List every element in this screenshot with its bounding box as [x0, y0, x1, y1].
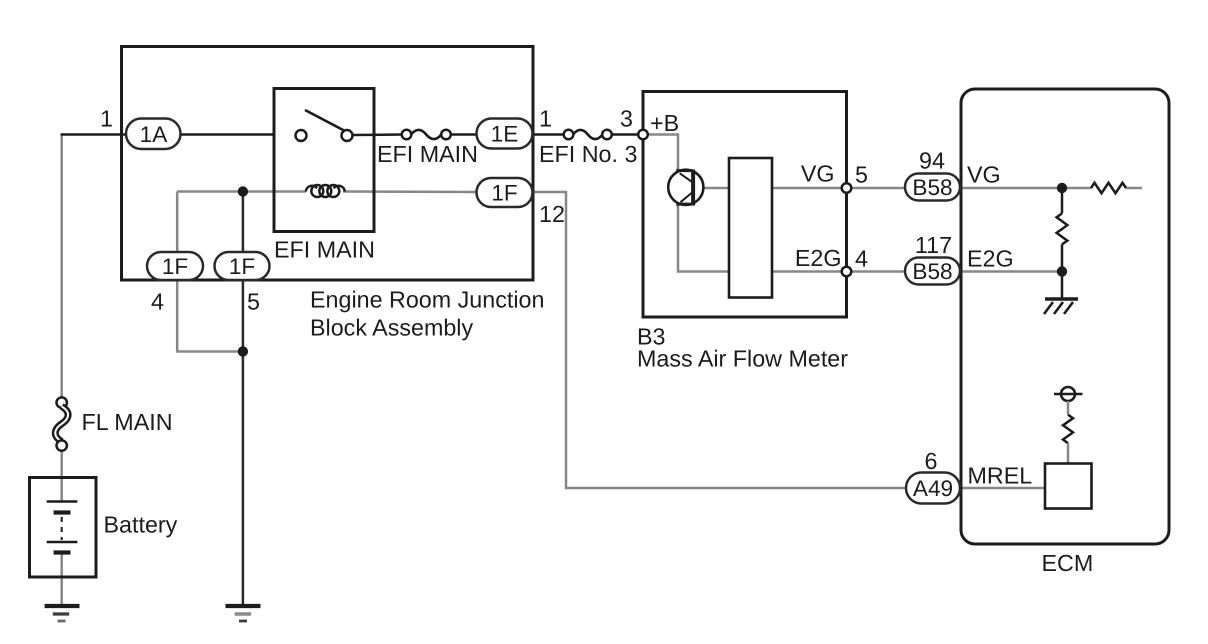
MAF box B3: [643, 92, 847, 318]
wire ground node vertical: [242, 192, 245, 605]
wire jog to ground node: [176, 350, 243, 353]
svg-text:3: 3: [620, 106, 633, 132]
pin E2G (4): [842, 267, 852, 277]
wire E2G to ECM: [847, 270, 1063, 273]
connector 1A: [126, 119, 181, 150]
wire fuse to +B: [611, 133, 643, 136]
wire VG sensor to pin: [772, 187, 847, 190]
connector 1F (4): [147, 252, 203, 280]
wire E2G node to chassis ground: [1061, 272, 1064, 300]
wire battery feed left vertical: [60, 135, 63, 399]
svg-text:117: 117: [915, 232, 952, 258]
fusible link FL MAIN: [57, 397, 67, 407]
wire 1F/12 to A49: [533, 192, 906, 488]
svg-text:A49: A49: [913, 476, 953, 501]
svg-text:1A: 1A: [140, 122, 169, 147]
svg-text:E2G: E2G: [795, 245, 842, 271]
wire VG to ECM: [847, 187, 1092, 190]
node coil junction: [238, 186, 248, 196]
svg-text:1: 1: [100, 106, 113, 132]
svg-text:Battery: Battery: [104, 512, 178, 538]
svg-text:MREL: MREL: [968, 463, 1033, 489]
svg-text:12: 12: [539, 201, 565, 227]
wire coil to 1F: [343, 190, 477, 193]
svg-text:EFI MAIN: EFI MAIN: [274, 237, 375, 263]
svg-text:6: 6: [925, 448, 938, 474]
resistor horizontal VG: [1091, 183, 1126, 193]
svg-text:VG: VG: [801, 161, 835, 187]
svg-text:ECM: ECM: [1042, 550, 1094, 576]
node E2G junction: [1057, 266, 1067, 276]
wire +B internal: [643, 135, 729, 272]
svg-text:E2G: E2G: [967, 246, 1014, 272]
svg-text:5: 5: [247, 289, 260, 315]
wire E2G sensor to pin: [772, 270, 847, 273]
relay box EFI MAIN: [274, 89, 374, 232]
svg-text:VG: VG: [967, 162, 1001, 188]
wire fuse to 1E: [450, 133, 533, 136]
connector B58 (94): [905, 174, 960, 201]
connector 1F (5): [215, 252, 270, 280]
svg-text:1F: 1F: [491, 181, 517, 206]
chassis ground ECM: [1045, 297, 1078, 301]
svg-text:EFI MAIN: EFI MAIN: [377, 141, 478, 167]
relay switch contact left: [296, 130, 307, 141]
pin VG (5): [842, 183, 852, 193]
ECM box: [961, 89, 1169, 544]
svg-text:+B: +B: [650, 110, 679, 136]
connector 1F (12): [477, 178, 533, 207]
wire terminal to resistor: [1067, 401, 1070, 415]
battery box: [30, 478, 97, 578]
svg-text:5: 5: [855, 162, 868, 188]
wire battery to ground: [60, 554, 63, 604]
sensor element block: [729, 158, 772, 298]
wire resistor to driver: [1067, 443, 1070, 463]
svg-text:1E: 1E: [491, 122, 519, 147]
wire 1E to EFI No.3 fuse: [533, 133, 565, 136]
connector B58 (117): [905, 258, 960, 285]
svg-text:B58: B58: [912, 259, 952, 284]
wire switch to EFI MAIN fuse: [352, 133, 403, 136]
wire 1F pin4 down: [176, 192, 179, 353]
svg-text:Mass Air Flow Meter: Mass Air Flow Meter: [637, 346, 848, 372]
svg-text:Block Assembly: Block Assembly: [310, 315, 473, 341]
ground center: [226, 604, 261, 608]
wire FL MAIN to battery: [60, 450, 63, 500]
wire after VG resistor: [1126, 187, 1142, 190]
connector A49: [906, 473, 960, 504]
svg-text:4: 4: [151, 289, 164, 315]
relay coil: [306, 186, 317, 192]
svg-text:EFI No. 3: EFI No. 3: [539, 141, 637, 167]
wire A49 to ECM driver: [960, 487, 1045, 490]
wire transistor to sensor block: [703, 187, 729, 190]
node ground jog junction: [238, 346, 248, 356]
connector 1E: [477, 119, 533, 149]
node VG junction: [1057, 183, 1067, 193]
pin +B: [638, 130, 648, 140]
MREL terminal circle: [1054, 393, 1083, 396]
MREL driver square: [1045, 464, 1092, 509]
relay switch blade: [305, 110, 345, 131]
ground battery: [45, 604, 80, 608]
resistor vertical VG-E2G: [1061, 188, 1064, 213]
svg-text:1F: 1F: [229, 254, 255, 279]
svg-text:B58: B58: [912, 175, 952, 200]
junction block Engine Room: [122, 47, 534, 281]
relay switch contact right: [342, 130, 353, 141]
svg-text:Engine Room Junction: Engine Room Junction: [310, 287, 544, 313]
svg-text:1F: 1F: [162, 254, 188, 279]
wire relay coil left to junction: [177, 190, 306, 193]
fuse EFI No.3: [564, 130, 574, 140]
fuse EFI MAIN: [402, 130, 412, 140]
wire top feed horizontal to 1A: [61, 133, 274, 136]
svg-text:1: 1: [539, 106, 552, 132]
battery cells: [61, 479, 63, 501]
svg-text:4: 4: [855, 246, 868, 272]
transistor Q: [668, 170, 703, 205]
resistor MREL pullup: [1063, 415, 1073, 444]
svg-text:94: 94: [919, 148, 945, 174]
svg-text:FL MAIN: FL MAIN: [82, 409, 173, 435]
